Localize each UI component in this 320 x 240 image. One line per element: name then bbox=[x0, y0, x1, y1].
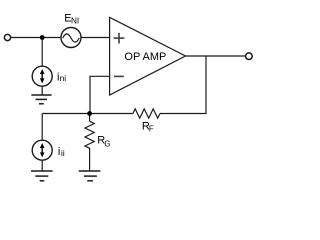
svg-text:OP AMP: OP AMP bbox=[124, 51, 166, 63]
svg-text:ni: ni bbox=[60, 74, 67, 83]
svg-text:NI: NI bbox=[71, 17, 79, 26]
svg-text:i: i bbox=[58, 146, 60, 158]
svg-text:F: F bbox=[149, 125, 154, 134]
svg-text:ii: ii bbox=[61, 149, 65, 158]
svg-text:G: G bbox=[104, 140, 110, 149]
